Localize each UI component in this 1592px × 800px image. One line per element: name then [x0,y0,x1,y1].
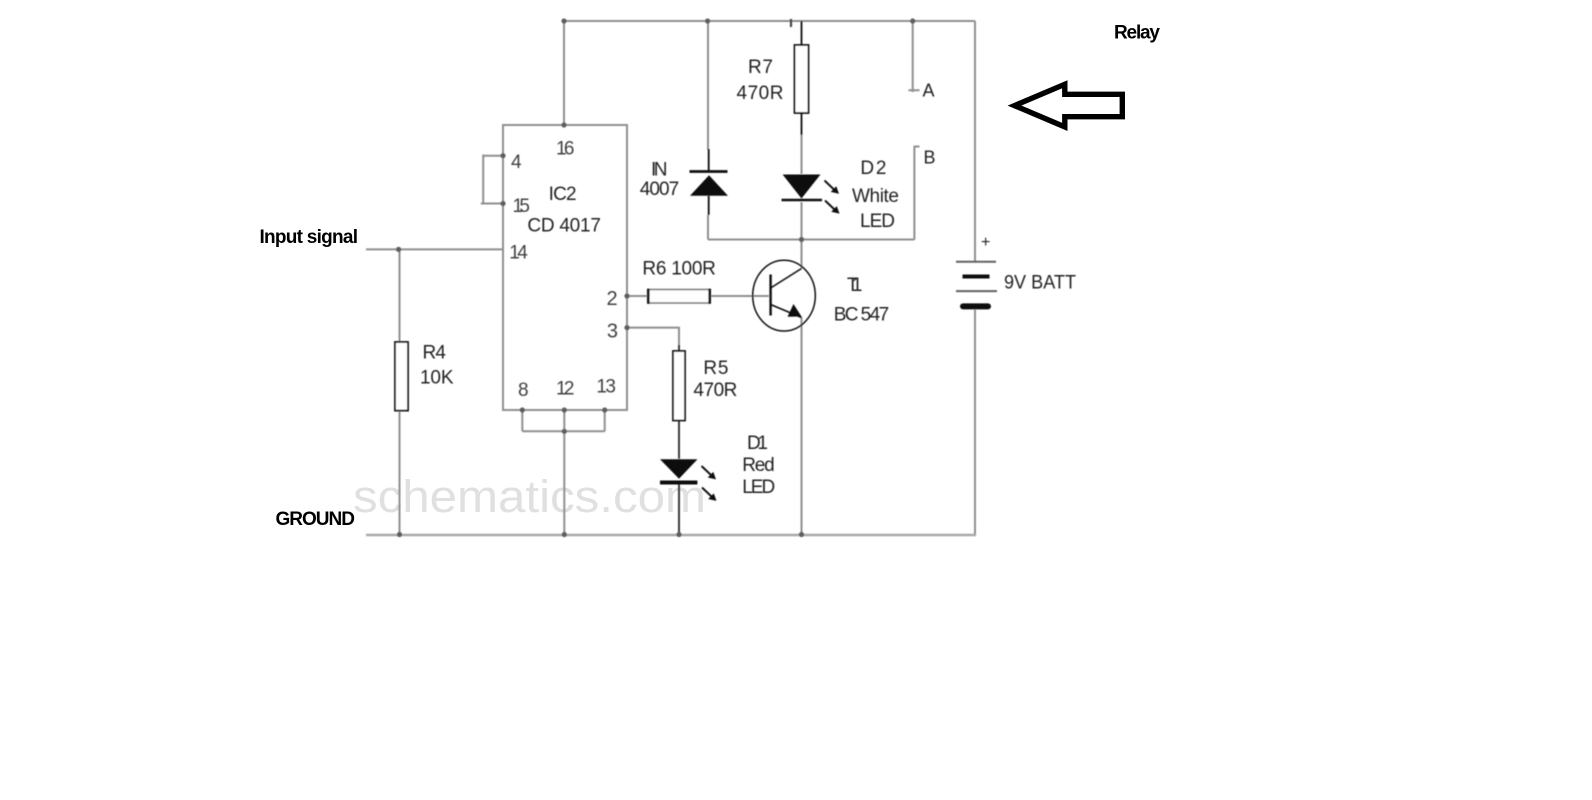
svg-text:9V BATT: 9V BATT [1004,273,1076,294]
svg-text:IN: IN [651,160,668,181]
svg-text:R6 100R: R6 100R [642,259,716,280]
svg-text:IC2: IC2 [549,184,577,205]
svg-text:B: B [924,148,936,168]
svg-text:Red: Red [742,455,775,476]
svg-text:14: 14 [509,243,528,264]
svg-text:schematics.com: schematics.com [353,471,706,522]
svg-text:R5: R5 [703,358,728,379]
svg-text:12: 12 [556,379,575,400]
svg-text:LED: LED [742,477,775,498]
svg-text:LED: LED [860,211,895,232]
svg-text:10K: 10K [420,368,454,389]
svg-text:Relay: Relay [1114,23,1160,44]
svg-text:GROUND: GROUND [276,509,356,530]
svg-text:2: 2 [607,288,618,310]
svg-text:13: 13 [596,377,616,398]
svg-text:BC 547: BC 547 [834,305,890,326]
svg-text:8: 8 [518,380,529,401]
svg-text:16: 16 [556,139,575,160]
svg-text:+: + [981,234,990,251]
svg-text:CD 4017: CD 4017 [527,216,601,237]
svg-text:R7: R7 [748,57,773,78]
svg-text:Input signal: Input signal [260,227,359,248]
svg-text:3: 3 [607,321,618,343]
svg-text:470R: 470R [737,83,784,104]
svg-text:470R: 470R [693,380,737,401]
svg-text:D2: D2 [860,158,886,179]
svg-text:4: 4 [511,152,522,173]
svg-text:White: White [852,186,899,207]
svg-text:D1: D1 [747,433,768,454]
svg-text:R4: R4 [423,343,447,364]
svg-text:4007: 4007 [640,179,680,200]
svg-text:15: 15 [513,196,531,217]
svg-text:T1: T1 [847,275,863,296]
svg-text:A: A [923,81,935,101]
